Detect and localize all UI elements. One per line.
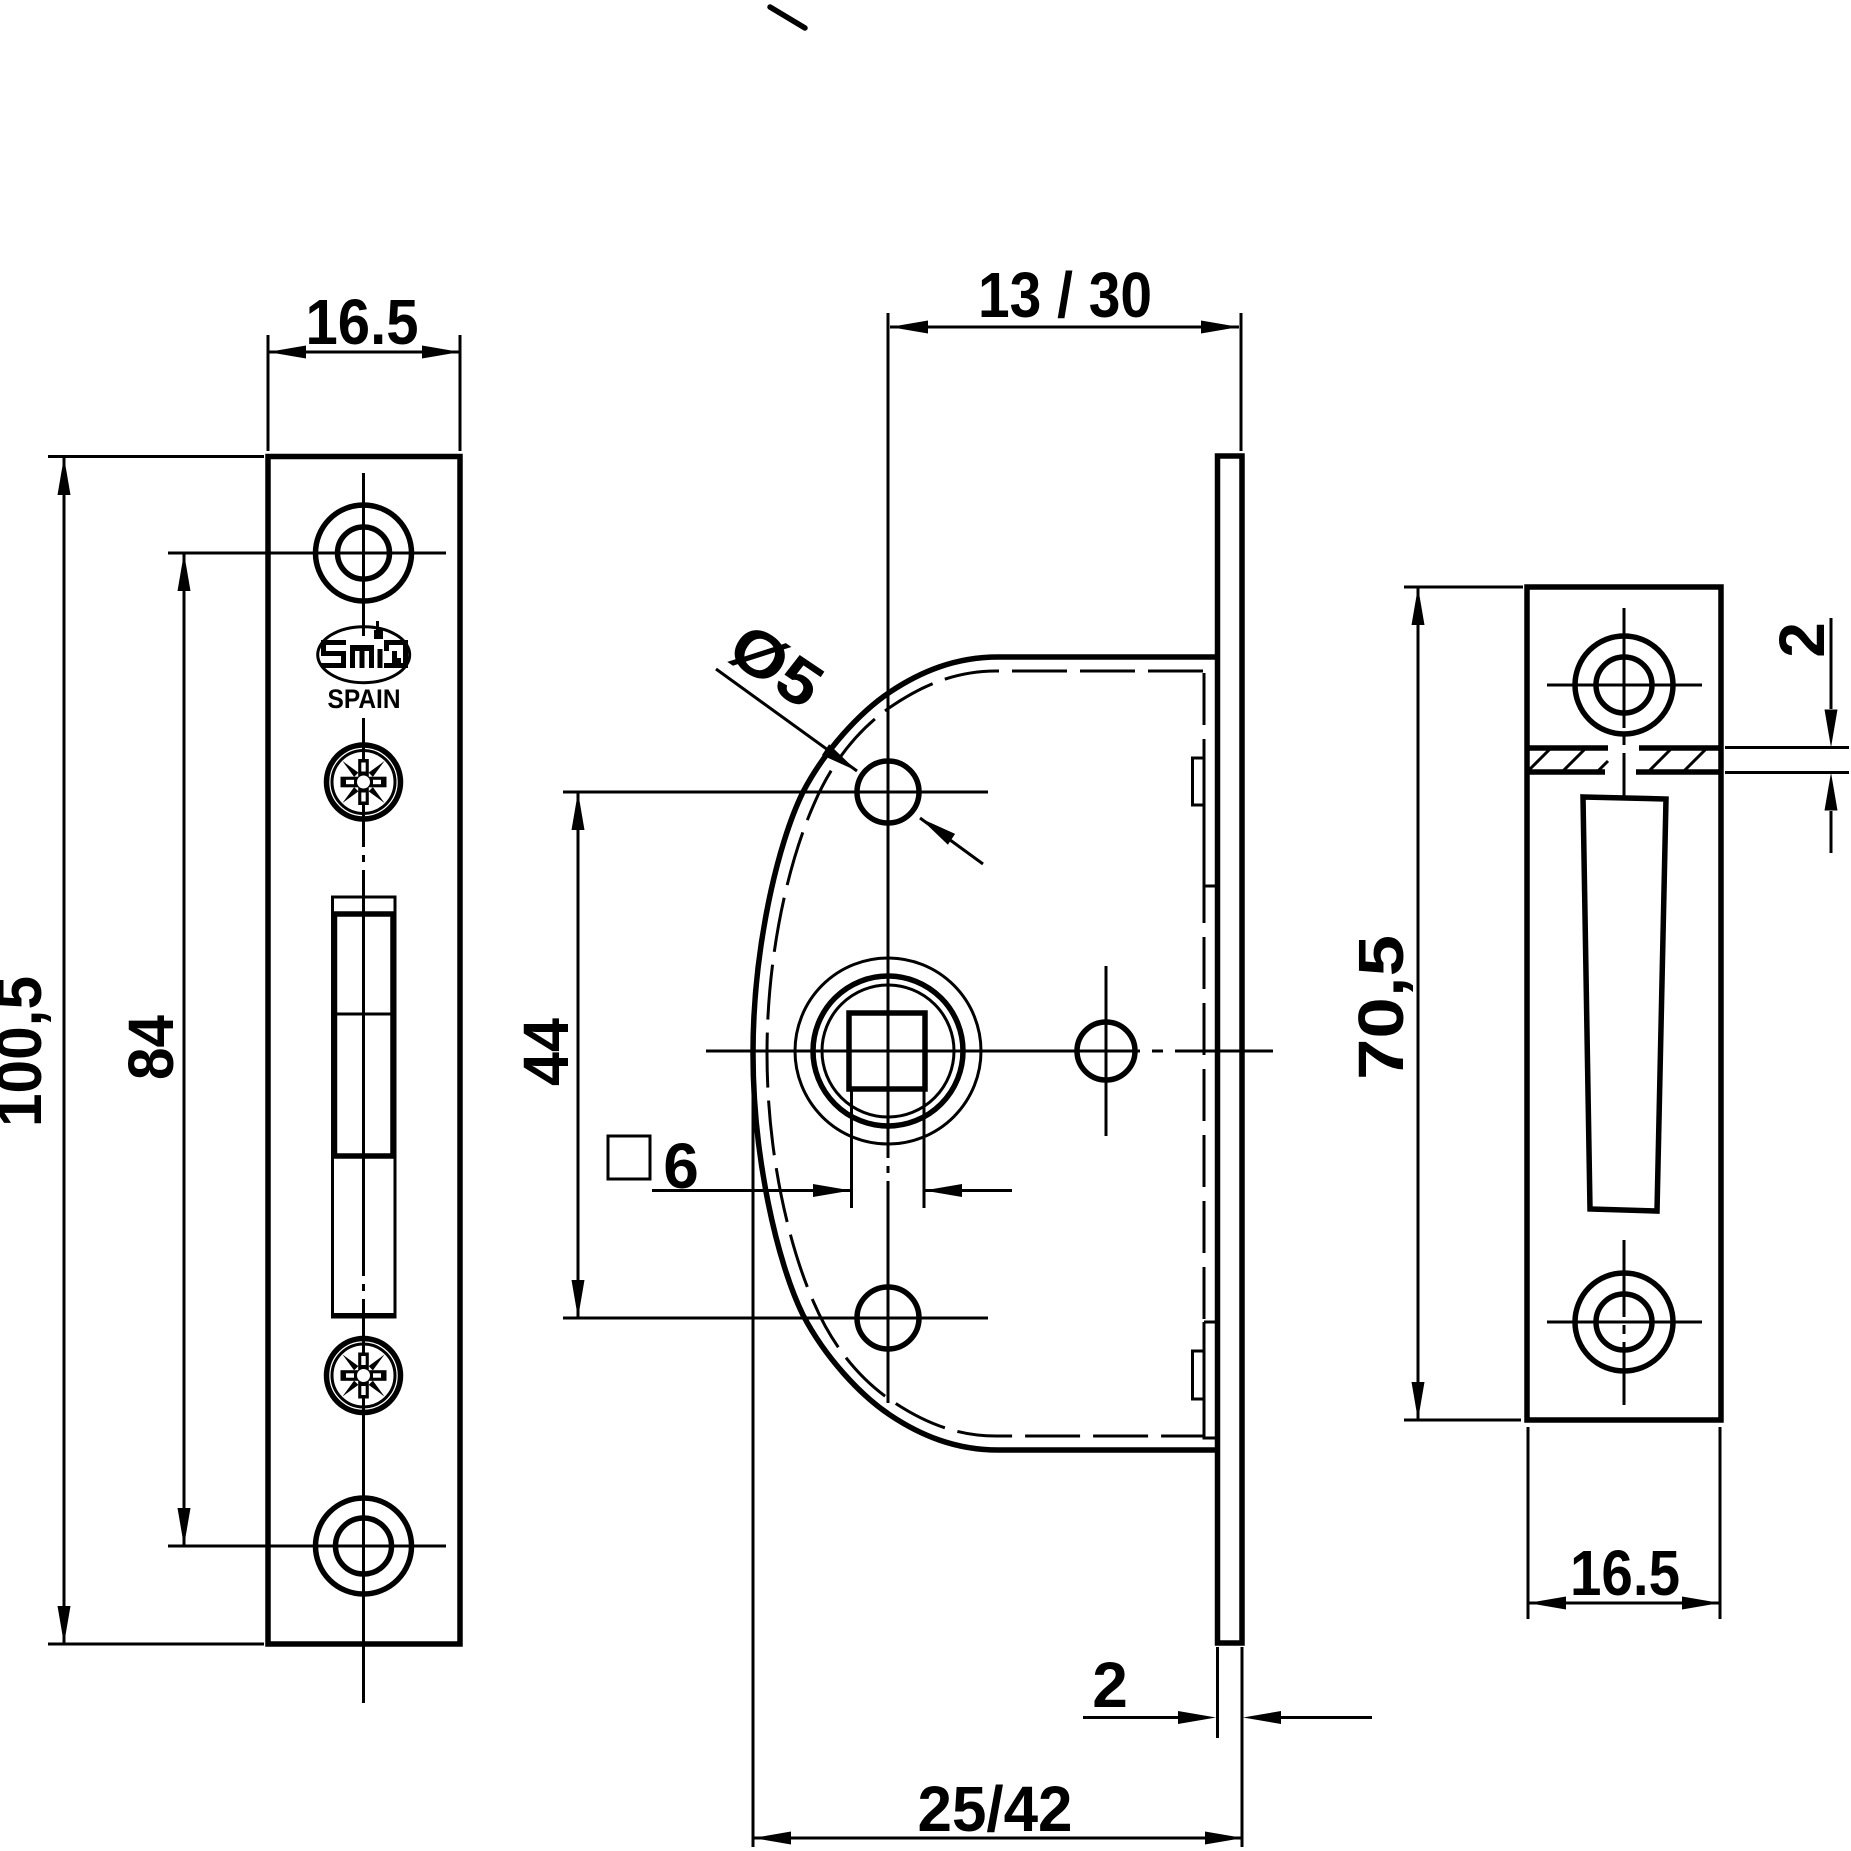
dimension 25/42 label [918,1773,1073,1845]
square 6 symbol [608,1136,650,1179]
dimension 84 line and arrows [178,553,191,1546]
dimension 25/42 extension line left [752,1056,755,1847]
dimension 2 right line and arrows [1825,618,1838,853]
follower hole crosshair [1105,966,1108,1136]
dimension 44 label [510,1018,582,1086]
dimension 16.5 right label [1570,1537,1680,1609]
hatched section band [1527,748,1721,772]
strike plate top hole outer [1575,636,1673,734]
strike plate centerline [1623,608,1626,1405]
svg-text:100,5: 100,5 [0,976,55,1127]
dimension 16.5 right line and arrows [1528,1597,1720,1610]
dimension 6 lines and arrows [652,1184,1012,1197]
latch bolt thick body [335,914,394,1156]
svg-text:2: 2 [1092,1649,1128,1721]
body vertical centerline [887,313,890,1403]
dimension 2 right extension lines [1725,748,1849,773]
bottom screw hole outer [316,1498,412,1594]
diameter 5 label [716,609,836,722]
svg-text:13 / 30: 13 / 30 [978,259,1152,331]
dimension 16.5 left extension lines [268,335,460,451]
faceplate side view bar [1218,456,1243,1643]
lower fixing hole [857,1287,919,1349]
follower hole right [1077,1022,1135,1080]
dimension 16.5 left line and arrows [268,346,460,359]
svg-text:16.5: 16.5 [1570,1537,1680,1609]
top screw hole outer [316,505,412,601]
spindle hub outer circle [795,958,981,1144]
dimension 70,5 extension lines [1404,587,1523,1420]
strike plate bottom hole inner [1596,1294,1652,1350]
latch bolt divider [335,1013,394,1016]
svg-text:44: 44 [510,1018,582,1086]
dimension 44 line and arrows [572,792,585,1318]
dimension 70,5 label [1345,935,1417,1080]
strike plate bottom hole crosshair [1547,1321,1702,1324]
dimension 16.5 left label [306,286,419,358]
dimension 16.5 right extension lines [1528,1427,1720,1619]
dimension 100,5 line and arrows [58,457,71,1644]
dimension 25/42 line and arrows [753,1832,1243,1845]
svg-text:25/42: 25/42 [918,1773,1073,1845]
dimension 84 extension line bottom [168,1545,281,1548]
faceplate vertical centerline [362,473,365,1703]
latch bolt outer [333,897,396,1317]
pozidriv screw bottom cross [341,1353,387,1399]
spindle hub inner circle [822,985,954,1117]
dimension 2 middle label [1092,1649,1128,1721]
svg-text:70,5: 70,5 [1345,935,1417,1080]
dimension 13 / 30 extension line right [1240,313,1243,451]
strike plate top hole inner [1596,657,1652,713]
mounting tab top [1193,758,1217,886]
pozidriv screw bottom ring [327,1339,401,1413]
main horizontal centerline [706,1050,1273,1053]
strike plate bottom hole outer [1575,1273,1673,1371]
dimension 13 / 30 line and arrows [890,321,1239,334]
top screw hole inner [338,527,390,579]
dimension 100,5 extension lines [48,457,264,1645]
dimension 13 / 30 label [978,259,1152,331]
strike plate outline [1527,587,1721,1420]
dimension 2 right label [1766,622,1838,658]
spindle square hole [849,1013,925,1089]
faceplate front view outline [268,457,460,1645]
square 6 label [663,1130,699,1202]
latch slot [1583,797,1666,1211]
lower fixing hole crosshair [563,1239,988,1397]
mounting tab bottom [1193,1322,1217,1438]
bottom hole crosshair [281,1545,446,1548]
dimension 84 extension line top [168,552,281,555]
dimension 84 label [115,1015,187,1080]
bottom screw hole inner [336,1518,392,1574]
svg-text:84: 84 [115,1015,187,1080]
hole diameter 5 circle [857,761,919,823]
dimension 6 extension lines [852,1090,925,1208]
lock body hidden inner contour dashed [767,671,1204,1436]
top hole crosshair [281,552,446,555]
diameter 5 leader line [716,669,983,864]
pozidriv screw top ring [327,745,401,819]
stray tick mark top [770,7,805,28]
svg-text:SPAIN: SPAIN [328,684,401,714]
dimension 70,5 line and arrows [1412,587,1425,1420]
dimension 2 middle lines and arrows [1083,1711,1372,1724]
svg-text:2: 2 [1766,622,1838,658]
amig logo ellipse [318,627,410,683]
spindle hub middle circle [813,976,963,1126]
latch bolt bottom edge [333,1313,395,1316]
dimension 100,5 label [0,976,55,1127]
amig logo text [321,621,408,668]
hole diameter 5 crosshair [563,713,988,871]
svg-text:16.5: 16.5 [306,286,419,358]
dimension 2 middle extension lines [1218,1647,1243,1847]
pozidriv screw top cross [341,759,387,805]
lock body outline side view [753,657,1216,1450]
strike plate top hole crosshair [1547,684,1702,687]
SPAIN text [328,684,401,714]
